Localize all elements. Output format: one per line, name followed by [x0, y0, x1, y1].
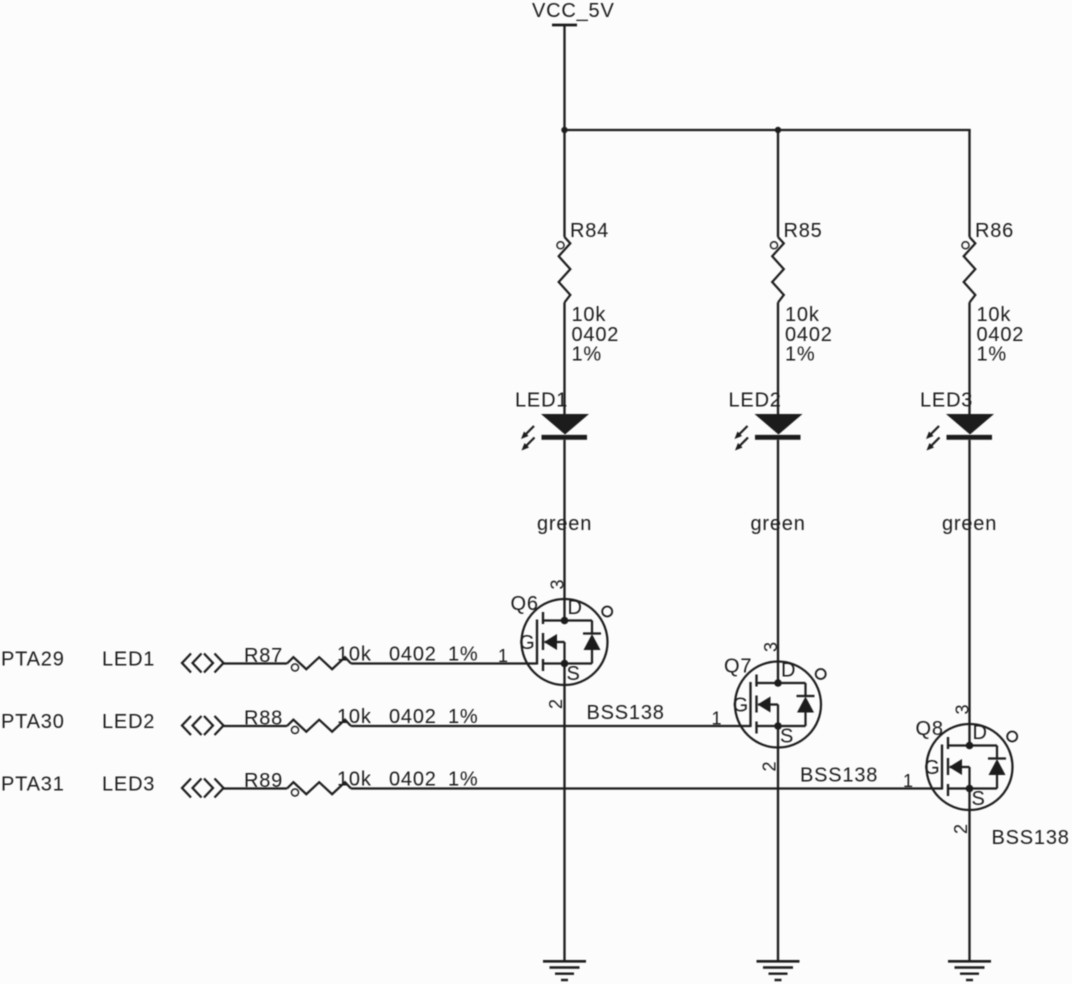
svg-text:LED3: LED3 [102, 774, 155, 796]
svg-text:1%: 1% [572, 344, 603, 366]
svg-text:0402: 0402 [389, 706, 437, 728]
svg-text:BSS138: BSS138 [587, 702, 665, 724]
svg-text:D: D [781, 660, 796, 682]
svg-text:R89: R89 [244, 770, 283, 792]
svg-text:2: 2 [546, 699, 566, 709]
svg-text:BSS138: BSS138 [992, 827, 1070, 849]
svg-text:3: 3 [761, 642, 781, 652]
svg-text:10k: 10k [977, 304, 1012, 326]
svg-text:0402: 0402 [389, 644, 437, 666]
svg-text:Q7: Q7 [724, 656, 752, 678]
svg-text:LED2: LED2 [729, 390, 782, 412]
svg-text:0402: 0402 [389, 769, 437, 791]
svg-text:1%: 1% [785, 344, 816, 366]
svg-text:LED1: LED1 [102, 649, 155, 671]
svg-text:LED1: LED1 [515, 390, 568, 412]
svg-text:R87: R87 [244, 645, 283, 667]
svg-text:VCC_5V: VCC_5V [532, 0, 615, 22]
svg-text:LED3: LED3 [920, 390, 973, 412]
svg-text:G: G [519, 632, 535, 654]
svg-text:10k: 10k [572, 304, 607, 326]
svg-text:PTA31: PTA31 [1, 774, 65, 796]
svg-text:R88: R88 [244, 708, 283, 730]
svg-text:Q8: Q8 [916, 718, 944, 740]
svg-text:R86: R86 [975, 220, 1014, 242]
svg-text:1%: 1% [448, 644, 479, 666]
svg-text:LED2: LED2 [102, 711, 155, 733]
svg-text:10k: 10k [785, 304, 820, 326]
svg-text:10k: 10k [337, 769, 372, 791]
svg-text:G: G [733, 695, 749, 717]
svg-text:D: D [568, 597, 583, 619]
svg-text:R85: R85 [784, 220, 823, 242]
svg-text:D: D [973, 722, 988, 744]
svg-text:S: S [567, 663, 581, 685]
svg-text:Q6: Q6 [511, 593, 539, 615]
svg-text:1%: 1% [448, 769, 479, 791]
svg-text:1%: 1% [448, 706, 479, 728]
svg-text:PTA30: PTA30 [1, 711, 65, 733]
svg-text:BSS138: BSS138 [800, 765, 878, 787]
svg-text:3: 3 [953, 704, 973, 714]
svg-text:G: G [924, 757, 940, 779]
svg-text:2: 2 [951, 824, 971, 834]
svg-text:PTA29: PTA29 [1, 649, 65, 671]
svg-text:S: S [972, 788, 986, 810]
svg-text:3: 3 [548, 579, 568, 589]
svg-text:10k: 10k [337, 706, 372, 728]
svg-text:S: S [780, 726, 794, 748]
svg-text:10k: 10k [337, 644, 372, 666]
svg-text:1%: 1% [977, 344, 1008, 366]
svg-text:R84: R84 [570, 220, 609, 242]
svg-text:2: 2 [760, 761, 780, 771]
